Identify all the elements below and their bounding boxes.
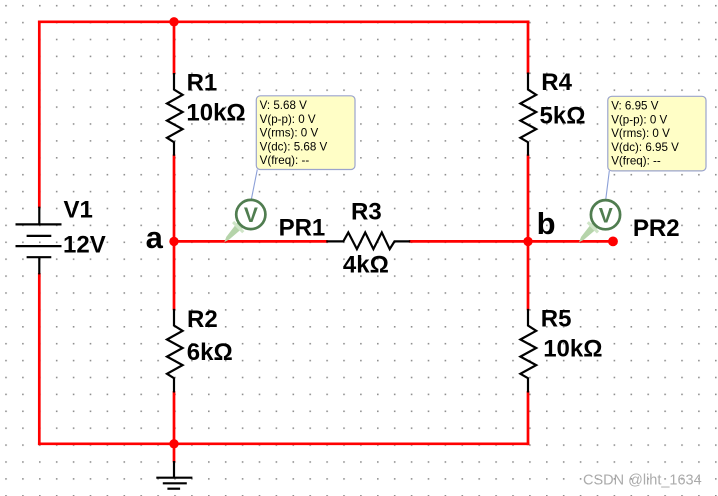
svg-text:R5: R5 bbox=[541, 306, 572, 333]
svg-text:V(p-p): 0 V: V(p-p): 0 V bbox=[260, 113, 316, 126]
svg-text:R2: R2 bbox=[187, 306, 218, 333]
svg-text:R4: R4 bbox=[541, 69, 572, 96]
svg-text:V(dc): 6.95 V: V(dc): 6.95 V bbox=[611, 141, 679, 154]
svg-text:V(rms): 0 V: V(rms): 0 V bbox=[260, 127, 319, 140]
svg-text:PR1: PR1 bbox=[279, 215, 326, 242]
svg-text:R3: R3 bbox=[351, 198, 382, 225]
svg-text:V(dc): 5.68 V: V(dc): 5.68 V bbox=[260, 140, 328, 153]
svg-text:10kΩ: 10kΩ bbox=[543, 336, 602, 363]
svg-text:V: V bbox=[599, 204, 613, 227]
svg-text:10kΩ: 10kΩ bbox=[186, 99, 245, 126]
svg-text:V(p-p): 0 V: V(p-p): 0 V bbox=[611, 113, 667, 126]
svg-text:12V: 12V bbox=[63, 232, 106, 259]
svg-text:V(freq): --: V(freq): -- bbox=[611, 155, 661, 168]
svg-text:V(freq): --: V(freq): -- bbox=[260, 154, 310, 167]
svg-text:b: b bbox=[537, 206, 556, 241]
svg-text:V: 5.68 V: V: 5.68 V bbox=[260, 99, 308, 112]
svg-text:PR2: PR2 bbox=[633, 215, 680, 242]
svg-text:6kΩ: 6kΩ bbox=[187, 339, 233, 366]
svg-text:R1: R1 bbox=[187, 69, 218, 96]
svg-text:V(rms): 0 V: V(rms): 0 V bbox=[611, 127, 670, 140]
svg-text:CSDN @liht_1634: CSDN @liht_1634 bbox=[583, 472, 702, 488]
svg-text:4kΩ: 4kΩ bbox=[343, 252, 389, 279]
svg-text:V: 6.95 V: V: 6.95 V bbox=[611, 100, 659, 113]
svg-text:V: V bbox=[244, 204, 258, 227]
svg-text:a: a bbox=[146, 220, 164, 255]
svg-text:5kΩ: 5kΩ bbox=[540, 102, 586, 129]
svg-text:V1: V1 bbox=[64, 197, 93, 224]
